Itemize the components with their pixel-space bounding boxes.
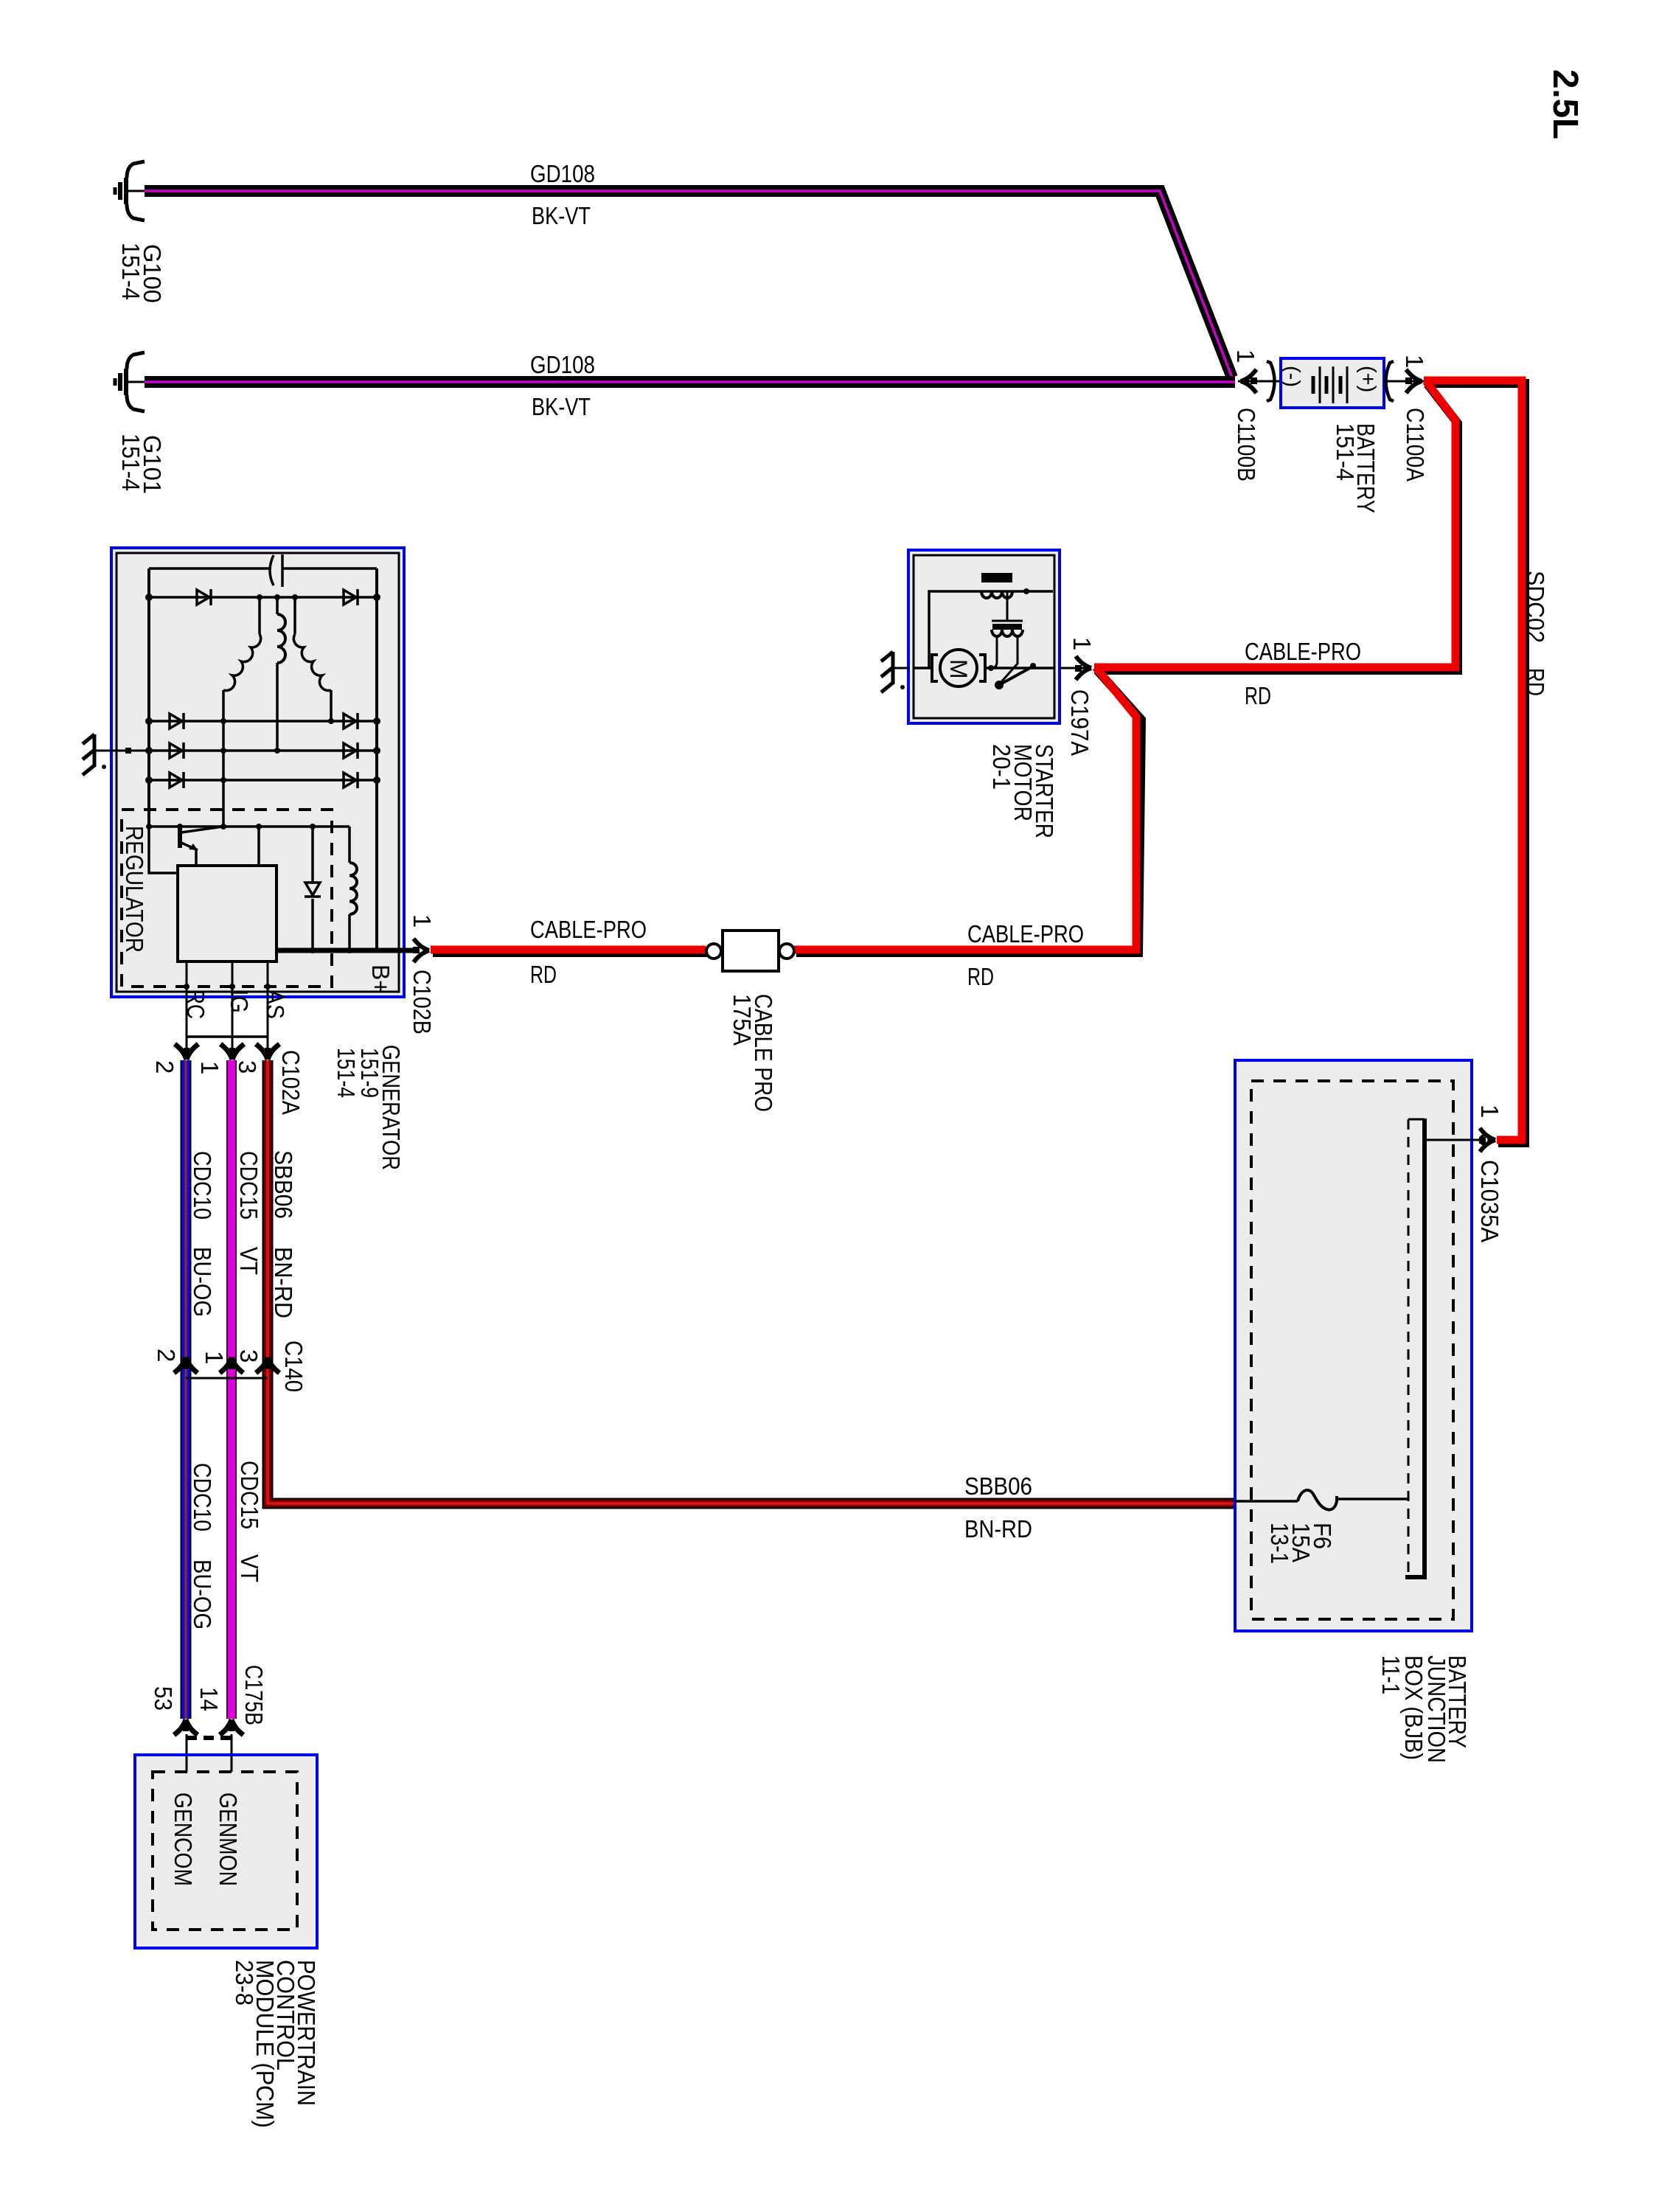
svg-text:2.5L: 2.5L [1545, 69, 1585, 139]
svg-text:53: 53 [150, 1686, 177, 1711]
battery (-) terminal label [1280, 366, 1304, 387]
svg-text:SBB06: SBB06 [270, 1150, 297, 1219]
diode rail 2 [149, 713, 377, 729]
label F6 15A 13-1 [1266, 1523, 1336, 1564]
regulator dashed box [122, 810, 332, 987]
label BATTERY JUNCTION BOX (BJB) 11-1 [1377, 1655, 1471, 1763]
chassis ground at generator [83, 734, 149, 775]
label BATTERY 151-4 [1332, 423, 1380, 513]
pin 1 at C1100A [1401, 355, 1428, 368]
starter motor box [908, 550, 1060, 723]
svg-text:CABLE-PRO: CABLE-PRO [967, 920, 1084, 947]
label C1100A [1402, 408, 1429, 481]
connector C140 [174, 1357, 279, 1378]
starter motor M [914, 650, 1054, 686]
label C102B [408, 970, 436, 1034]
pin 14 at C175B [195, 1687, 223, 1711]
label VT (lower) [236, 1554, 263, 1582]
label SBB06 (horizontal) [964, 1472, 1032, 1500]
svg-text:REGULATOR: REGULATOR [121, 826, 148, 953]
wire SBB06 BN-RD elbow to BJB [268, 1359, 1235, 1503]
label AS [262, 990, 289, 1019]
svg-text:3: 3 [234, 1060, 261, 1074]
svg-text:RD: RD [1245, 682, 1271, 709]
label C197A [1066, 689, 1093, 756]
regulator top rail [146, 824, 349, 829]
left bus into regulator block [149, 827, 178, 873]
label CDC15 (upper) [235, 1151, 262, 1220]
label CABLE-PRO (left segment) [530, 916, 647, 943]
connector C102B [413, 939, 429, 962]
label G100 151-4 [117, 243, 166, 303]
svg-text:20-1: 20-1 [988, 744, 1015, 790]
wire CDC15 VT (upper segment) [226, 1060, 237, 1359]
label C1100B [1233, 408, 1260, 481]
svg-text:SBB06: SBB06 [964, 1472, 1032, 1500]
fuse F6 15A [1235, 1490, 1408, 1510]
generator box [111, 548, 404, 997]
svg-text:(-): (-) [1280, 366, 1304, 387]
svg-text:1: 1 [201, 1351, 228, 1364]
wire GD108 from G101 (BK-VT) [145, 376, 1235, 388]
label G101 151-4 [117, 434, 166, 494]
svg-text:GD108: GD108 [530, 160, 595, 187]
label BK-VT (wire 2) [532, 393, 591, 420]
connector C1100A [1384, 361, 1424, 401]
generator left bus [145, 568, 153, 827]
battery (+) terminal label [1356, 366, 1380, 392]
svg-text:M: M [945, 659, 972, 679]
label BU-OG (upper) [189, 1247, 216, 1317]
starter internal top wire [929, 588, 1053, 668]
pin 1 at C197A [1068, 637, 1096, 650]
label B+ [367, 964, 394, 994]
svg-text:(+): (+) [1356, 366, 1380, 392]
svg-text:SDC02: SDC02 [1522, 571, 1549, 643]
svg-text:23-8: 23-8 [231, 1960, 258, 2006]
svg-text:C1035A: C1035A [1476, 1160, 1503, 1242]
svg-text:VT: VT [235, 1247, 262, 1275]
inline connector CABLE PRO 175A [706, 931, 794, 971]
svg-text:CABLE-PRO: CABLE-PRO [1245, 638, 1361, 665]
label RD (right segment) [967, 963, 994, 990]
svg-text:1: 1 [1476, 1105, 1503, 1118]
regulator pins RC IG AS [184, 961, 271, 1050]
svg-text:1: 1 [408, 914, 436, 928]
starter solenoid coil 2 [991, 591, 1023, 683]
connector C1035A [1425, 1128, 1495, 1152]
connector C102A [175, 1037, 279, 1060]
flyback diode (regulator) [305, 827, 321, 953]
wire CDC10 BU-OG (upper segment) [181, 1060, 192, 1359]
svg-text:CABLE-PRO: CABLE-PRO [530, 916, 647, 943]
svg-text:C102B: C102B [408, 970, 436, 1034]
powertrain control module box [135, 1755, 317, 1948]
wire SBB06 BN-RD (upper segment) [262, 1060, 274, 1359]
pin 2 at C140 [153, 1349, 180, 1362]
battery BATTERY 151-4 [1281, 358, 1384, 408]
svg-text:CDC10: CDC10 [189, 1463, 216, 1531]
wire CABLE-PRO RD (battery to starter motor) [1094, 381, 1458, 670]
svg-text:C197A: C197A [1066, 689, 1093, 756]
svg-text:RD: RD [967, 963, 994, 990]
diode rail 3 [149, 742, 377, 759]
diode rail 4 [149, 772, 377, 788]
svg-text:175A: 175A [728, 994, 756, 1046]
svg-text:11-1: 11-1 [1377, 1655, 1405, 1694]
label CABLE-PRO (right segment) [967, 920, 1084, 947]
pin 3 at C102A [234, 1060, 261, 1074]
pin 53 at C175B [150, 1686, 177, 1711]
wire SDC02 RD (battery to BJB C1035A) [1424, 380, 1525, 1143]
label C1035A [1476, 1160, 1503, 1242]
svg-text:B+: B+ [367, 964, 394, 994]
label RD (battery segment) [1245, 682, 1271, 709]
svg-text:BK-VT: BK-VT [532, 202, 591, 229]
battery junction box [1235, 1060, 1472, 1631]
label CDC10 (upper) [189, 1151, 216, 1220]
connector C1100B [1238, 361, 1281, 401]
svg-text:1: 1 [1068, 637, 1096, 650]
pin 2 at C102A [151, 1060, 178, 1074]
field coil (generator) [347, 827, 357, 953]
svg-text:GENCOM: GENCOM [170, 1792, 197, 1886]
capacitor (generator suppression) [270, 554, 282, 587]
diode rail 1 [149, 589, 377, 605]
label REGULATOR [121, 826, 148, 953]
svg-text:BU-OG: BU-OG [189, 1247, 216, 1317]
connector C175B [174, 1719, 243, 1756]
svg-text:RC: RC [182, 990, 209, 1019]
label CDC10 (lower) [189, 1463, 216, 1531]
svg-text:RD: RD [1522, 668, 1549, 696]
label C175B [240, 1665, 268, 1725]
label GENERATOR 151-9 151-4 [333, 1045, 405, 1170]
generator top rail with capacitor [149, 567, 377, 570]
BJB bus bar [1405, 1119, 1427, 1577]
label CABLE PRO 175A [728, 994, 777, 1112]
label GD108 (wire 2) [530, 351, 595, 378]
label IG [226, 990, 253, 1013]
svg-text:151-4: 151-4 [117, 434, 145, 491]
transistor Q1 (regulator) [180, 827, 223, 866]
svg-text:151-4: 151-4 [1332, 423, 1359, 481]
svg-text:151-4: 151-4 [333, 1048, 360, 1098]
svg-text:C1100B: C1100B [1233, 408, 1260, 481]
regulator block [178, 827, 276, 961]
svg-text:1: 1 [1401, 355, 1428, 368]
pin 1 at C102A [196, 1061, 223, 1074]
label STARTER MOTOR 20-1 [988, 744, 1058, 838]
svg-text:BN-RD: BN-RD [270, 1247, 297, 1318]
label GENCOM [170, 1792, 197, 1886]
pin 1 at C140 [201, 1351, 228, 1364]
wire CDC10 BU-OG (lower segment) [181, 1359, 192, 1719]
label BU-OG (lower) [189, 1559, 216, 1630]
chassis ground at starter [881, 652, 910, 692]
label VT (upper) [235, 1247, 262, 1275]
label CABLE-PRO (battery segment) [1245, 638, 1361, 665]
svg-text:BN-RD: BN-RD [964, 1515, 1032, 1543]
ground G101 [115, 352, 145, 411]
pin 1 at C1035A [1476, 1105, 1503, 1118]
label CDC15 (lower) [236, 1461, 263, 1529]
label BK-VT (wire 1) [532, 202, 591, 229]
label POWERTRAIN CONTROL MODULE (PCM) 23-8 [231, 1960, 320, 2128]
svg-text:IG: IG [226, 990, 253, 1013]
svg-text:14: 14 [195, 1687, 223, 1711]
svg-text:BK-VT: BK-VT [532, 393, 591, 420]
label C140 [280, 1340, 307, 1392]
label GENMON [215, 1792, 242, 1886]
svg-text:13-1: 13-1 [1266, 1523, 1293, 1564]
wire CABLE-PRO RD (starter to generator B+) [431, 667, 1141, 953]
svg-text:3: 3 [235, 1349, 262, 1363]
svg-text:C102A: C102A [277, 1050, 305, 1115]
svg-text:1: 1 [196, 1061, 223, 1074]
svg-text:AS: AS [262, 990, 289, 1019]
svg-text:2: 2 [151, 1060, 178, 1074]
label RD (left segment) [530, 961, 557, 988]
pin 1 at C102B [408, 914, 436, 928]
svg-text:CDC10: CDC10 [189, 1151, 216, 1220]
label SDC02 RD [1522, 571, 1549, 696]
starter solenoid switch [995, 663, 1036, 689]
label RC [182, 990, 209, 1019]
label BN-RD (upper, rotated) [270, 1247, 297, 1318]
pin 3 at C140 [235, 1349, 262, 1363]
svg-text:2: 2 [153, 1349, 180, 1362]
label SBB06 (upper, rotated) [270, 1150, 297, 1219]
svg-text:151-4: 151-4 [117, 243, 145, 300]
svg-text:BU-OG: BU-OG [189, 1559, 216, 1630]
starter solenoid coil 1 [981, 573, 1012, 598]
svg-text:VT: VT [236, 1554, 263, 1582]
stator winding right phase [293, 597, 331, 721]
label C102A [277, 1050, 305, 1115]
svg-text:CDC15: CDC15 [235, 1151, 262, 1220]
ground G100 [115, 161, 145, 220]
pin 1 at C1100B [1232, 349, 1259, 363]
B+ output line [276, 948, 417, 953]
svg-text:RD: RD [530, 961, 557, 988]
svg-text:CDC15: CDC15 [236, 1461, 263, 1529]
label BN-RD (horizontal) [964, 1515, 1032, 1543]
title 2.5L [1545, 69, 1585, 139]
svg-text:GENMON: GENMON [215, 1792, 242, 1886]
stator winding left phase [223, 597, 261, 827]
generator right bus [373, 568, 380, 950]
svg-text:GD108: GD108 [530, 351, 595, 378]
svg-text:C1100A: C1100A [1402, 408, 1429, 481]
svg-text:C175B: C175B [240, 1665, 268, 1725]
wire CDC15 VT (lower segment) [226, 1359, 237, 1719]
label GD108 (wire 1) [530, 160, 595, 187]
svg-text:1: 1 [1232, 349, 1259, 363]
stator winding center phase [277, 597, 285, 751]
connector C197A [1060, 656, 1091, 680]
svg-text:C140: C140 [280, 1340, 307, 1392]
wire GD108 from G100 (BK-VT) [145, 191, 1232, 378]
